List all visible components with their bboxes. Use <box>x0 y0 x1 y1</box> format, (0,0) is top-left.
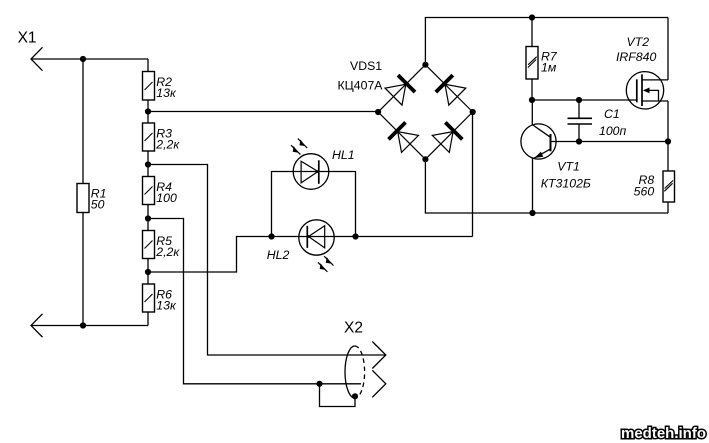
resistor R7 <box>526 47 538 80</box>
node junction HL branch right <box>352 233 358 239</box>
wire R1 top lead <box>82 59 84 184</box>
LED HL2 light arrows <box>318 256 334 272</box>
wire R5-R6 <box>147 259 149 285</box>
node bridge left vertex <box>375 109 381 115</box>
svg-text:КЦ407А: КЦ407А <box>338 79 384 93</box>
wire R7 top lead <box>531 18 533 47</box>
svg-text:100п: 100п <box>599 124 627 138</box>
svg-text:VT2: VT2 <box>627 35 650 49</box>
node junction VT1 emitter rail <box>529 210 535 216</box>
node junction under R5 <box>145 269 151 275</box>
svg-text:IRF840: IRF840 <box>616 50 656 64</box>
wire R1 bottom lead <box>82 213 84 326</box>
bridge diode bottom-right <box>445 122 462 139</box>
LED HL1 light arrows <box>291 139 307 155</box>
svg-text:X2: X2 <box>344 320 363 337</box>
node junction X1-R1 bottom <box>80 322 86 328</box>
svg-text:X1: X1 <box>18 30 37 47</box>
wire X1 lower horizontal <box>31 325 148 327</box>
wire X1 upper horizontal <box>31 58 148 60</box>
svg-text:C1: C1 <box>604 107 620 121</box>
connector X2 ellipse <box>345 346 355 398</box>
wire R4-R5 <box>147 205 149 231</box>
resistor R4 <box>143 177 155 205</box>
svg-text:КТ3102Б: КТ3102Б <box>541 177 591 191</box>
node junction X1-R1 top <box>80 56 86 62</box>
svg-text:VDS1: VDS1 <box>350 59 382 73</box>
connector X2 lower arrow <box>372 370 386 397</box>
resistor R2 <box>143 72 155 101</box>
node bridge right vertex <box>470 109 476 115</box>
svg-text:1м: 1м <box>541 60 557 74</box>
node junction C1 top <box>576 97 582 103</box>
resistor R5 <box>143 231 155 259</box>
wire R2-R3 <box>147 100 149 123</box>
connector X1 upper arrow <box>31 47 43 70</box>
svg-text:13к: 13к <box>156 298 177 312</box>
wire node-R2 to bridge left <box>148 111 378 113</box>
wire VT2 source down <box>667 101 669 171</box>
wire R6 bottom <box>147 312 149 326</box>
node junction C1 bottom <box>576 138 582 144</box>
wire R3-R4 <box>147 151 149 177</box>
svg-text:2,2к: 2,2к <box>155 245 180 259</box>
bridge diode top-right <box>436 75 453 92</box>
transistor VT1 <box>531 100 533 125</box>
node bridge bottom vertex <box>422 156 428 162</box>
bridge diode bottom-left <box>389 122 406 139</box>
LED HL1 <box>293 154 329 190</box>
LED HL2 <box>299 220 334 255</box>
node junction X2 shield tap <box>316 381 322 387</box>
node junction under R4 <box>145 215 151 221</box>
bridge diode top-left <box>398 75 415 92</box>
wire node-R5 to HL2 <box>148 237 473 273</box>
wire R8 bottom to rail <box>667 202 669 213</box>
wire bridge top to top rail <box>425 18 668 65</box>
capacitor C1 <box>578 100 580 118</box>
node junction R7 bottom <box>529 97 535 103</box>
wire node-R3 to X2 upper <box>148 165 385 356</box>
node bridge top vertex <box>422 62 428 68</box>
connector X1 lower arrow <box>31 314 43 337</box>
svg-text:13к: 13к <box>156 86 177 100</box>
node junction under R2 <box>145 108 151 114</box>
resistor R3 <box>143 123 155 151</box>
wire R7 bottom lead <box>531 79 533 100</box>
svg-text:HL2: HL2 <box>267 248 290 262</box>
svg-text:2,2к: 2,2к <box>155 137 180 151</box>
svg-text:560: 560 <box>634 185 655 199</box>
svg-text:50: 50 <box>91 198 105 212</box>
bridge diamond edges <box>378 65 425 112</box>
connector X2 upper arrow <box>372 342 386 369</box>
svg-text:VT1: VT1 <box>557 160 580 174</box>
svg-text:medteh.info: medteh.info <box>621 425 706 442</box>
svg-text:HL1: HL1 <box>332 148 355 162</box>
node junction top rail R7 <box>529 14 535 20</box>
node junction X2 ellipse bottom <box>352 393 358 399</box>
node junction HL branch left <box>268 233 274 239</box>
wire VT2 drain up to rail <box>667 18 669 80</box>
wire HL1 left branch <box>272 172 356 237</box>
resistor R8 <box>663 171 675 202</box>
resistor R6 <box>143 284 155 312</box>
wire bottom rail <box>425 159 668 213</box>
node junction base-R8 <box>665 138 671 144</box>
wire X2 shield loop <box>320 384 356 407</box>
wire HL2 line up to bridge right vertex <box>472 112 474 237</box>
node junction under R3 <box>145 161 151 167</box>
wire X1 to R2 <box>147 59 149 72</box>
resistor R1 <box>77 184 89 213</box>
wire gate rail <box>532 99 637 101</box>
wire node-R4 to X2 lower <box>148 219 361 384</box>
svg-text:100: 100 <box>156 191 177 205</box>
